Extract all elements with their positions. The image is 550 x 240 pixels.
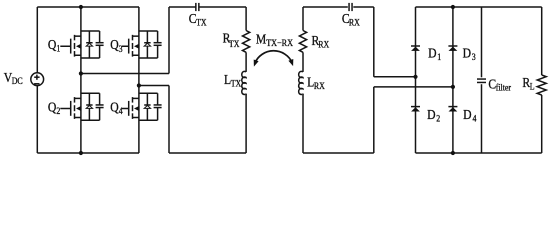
svg-text:TX: TX	[229, 38, 240, 49]
svg-text:filter: filter	[496, 82, 511, 93]
svg-text:2: 2	[56, 105, 60, 116]
svg-text:M: M	[256, 32, 267, 47]
svg-text:4: 4	[473, 113, 478, 124]
svg-text:D: D	[463, 46, 471, 61]
svg-text:TX: TX	[196, 17, 207, 28]
svg-text:1: 1	[437, 51, 441, 62]
svg-text:RX: RX	[318, 39, 330, 50]
svg-text:D: D	[463, 107, 471, 122]
svg-text:RX: RX	[314, 80, 326, 91]
svg-text:3: 3	[472, 51, 476, 62]
svg-text:DC: DC	[12, 76, 23, 87]
svg-text:D: D	[427, 107, 435, 122]
svg-text:D: D	[428, 46, 436, 61]
svg-text:L: L	[530, 81, 535, 92]
svg-text:2: 2	[436, 113, 440, 124]
svg-text:4: 4	[119, 105, 124, 116]
svg-text:1: 1	[56, 43, 60, 54]
svg-text:TX−RX: TX−RX	[266, 38, 293, 49]
svg-text:3: 3	[119, 43, 123, 54]
svg-text:RX: RX	[349, 17, 361, 28]
svg-text:TX: TX	[231, 78, 242, 89]
